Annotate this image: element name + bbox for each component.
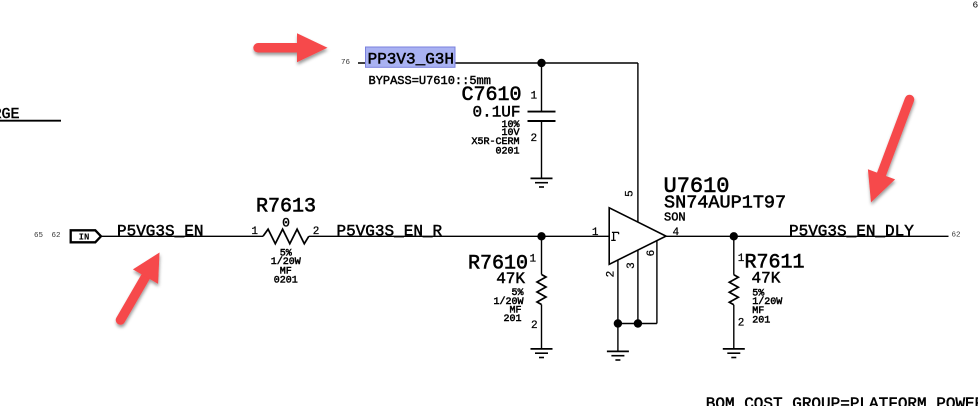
resistor R7613 bbox=[263, 229, 309, 244]
ground below R7610 bbox=[531, 349, 553, 358]
svg-text:1: 1 bbox=[531, 91, 538, 103]
svg-text:201: 201 bbox=[503, 314, 521, 325]
wire P5VG3S_EN_R bbox=[309, 235, 609, 237]
wire R7610 to net bbox=[541, 236, 543, 274]
svg-text:62: 62 bbox=[952, 232, 961, 240]
label R7610 bbox=[468, 252, 528, 275]
svg-text:201: 201 bbox=[752, 315, 770, 326]
pin 2 label of U7610 bbox=[605, 271, 617, 278]
part number SN74AUP1T97 bbox=[664, 192, 786, 213]
svg-text:2: 2 bbox=[738, 318, 745, 330]
junction at capacitor C7610 bbox=[537, 59, 545, 67]
resistor R7611 bbox=[729, 275, 738, 349]
svg-text:P5VG3S_EN: P5VG3S_EN bbox=[117, 222, 203, 240]
resistor R7610 bbox=[537, 275, 546, 349]
svg-text:IN: IN bbox=[79, 233, 90, 243]
svg-text:47K: 47K bbox=[752, 270, 781, 288]
svg-text:SON: SON bbox=[664, 210, 686, 224]
label U7610 bbox=[664, 174, 730, 199]
svg-text:PP3V3_G3H: PP3V3_G3H bbox=[368, 50, 454, 68]
svg-text:65: 65 bbox=[34, 232, 44, 240]
pin 2 of R7610 bbox=[531, 320, 538, 332]
pin 1 of R7611 bbox=[738, 253, 745, 265]
R7611 properties bbox=[752, 288, 782, 326]
wire pin 3 of U7610 bbox=[637, 250, 639, 324]
svg-text:62: 62 bbox=[52, 232, 61, 240]
annotation arrow at P5VG3S_EN bbox=[121, 253, 160, 321]
op-amp buffer U7610 bbox=[609, 208, 666, 264]
value 47K bbox=[496, 270, 525, 288]
ground below C7610 bbox=[531, 178, 553, 187]
pin 4 of U7610 bbox=[673, 227, 680, 239]
package SON bbox=[664, 210, 686, 224]
svg-text:1: 1 bbox=[530, 254, 537, 266]
svg-text:0: 0 bbox=[282, 216, 290, 231]
C7610 properties bbox=[471, 120, 519, 158]
sheet reference 62 right bbox=[952, 232, 961, 240]
pin 2 of R7611 bbox=[738, 318, 745, 330]
value 0.1UF bbox=[472, 104, 520, 122]
wire to ground from pin 2 bbox=[617, 324, 619, 352]
sheet reference 76 bbox=[341, 59, 351, 67]
svg-text:1: 1 bbox=[592, 227, 599, 239]
sheet reference 65 62 bbox=[34, 232, 61, 240]
pin 3 label of U7610 bbox=[626, 262, 638, 269]
label C7610 bbox=[461, 84, 521, 107]
ground below R7611 bbox=[723, 349, 745, 358]
annotation arrow at PP3V3_G3H bbox=[258, 33, 328, 62]
R7613 properties bbox=[271, 248, 301, 286]
wire pin 2 of U7610 bbox=[617, 260, 619, 324]
value 0 bbox=[282, 216, 290, 231]
wire P5VG3S_EN_DLY bbox=[666, 235, 949, 237]
annotation arrow at P5VG3S_EN_DLY bbox=[868, 100, 910, 203]
wire R7611 to net bbox=[733, 236, 735, 274]
value 47K of R7611 bbox=[752, 270, 781, 288]
svg-text:2: 2 bbox=[531, 133, 538, 145]
svg-text:3: 3 bbox=[626, 262, 638, 269]
node PRECHARGE (off-sheet net, clipped at left edge) bbox=[0, 106, 61, 123]
label R7611 bbox=[745, 252, 805, 275]
wire to buffer pin 5 bbox=[637, 63, 639, 222]
R7610 properties bbox=[493, 288, 523, 325]
svg-text:0.1UF: 0.1UF bbox=[472, 104, 520, 122]
pin 1 of C7610 bbox=[531, 91, 538, 103]
capacitor C7610 bbox=[528, 63, 556, 178]
port IN bbox=[71, 230, 101, 242]
pin 2 of R7613 bbox=[313, 226, 320, 238]
svg-text:1: 1 bbox=[251, 226, 258, 238]
node PP3V3_G3H label (highlighted) bbox=[366, 47, 456, 68]
junction at pin 3 bbox=[634, 319, 642, 327]
junction at R7611 bbox=[730, 232, 738, 240]
junction at pin 2 bbox=[614, 319, 622, 327]
pin 5 of U7610 bbox=[624, 190, 636, 197]
pin 6 label of U7610 bbox=[646, 250, 658, 257]
BYPASS property bbox=[369, 74, 491, 88]
wire joining pins 2 3 6 bbox=[618, 323, 657, 325]
svg-text:2: 2 bbox=[531, 320, 538, 332]
svg-text:0201: 0201 bbox=[274, 276, 298, 287]
node P5VG3S_EN_DLY label bbox=[789, 222, 914, 240]
svg-text:P5VG3S_EN_R: P5VG3S_EN_R bbox=[337, 222, 443, 240]
svg-text:0201: 0201 bbox=[495, 146, 519, 157]
pin 1 of U7610 bbox=[592, 227, 599, 239]
wire pin 6 of U7610 bbox=[656, 241, 658, 324]
svg-text:6: 6 bbox=[646, 250, 658, 257]
svg-text:5: 5 bbox=[624, 190, 636, 197]
ground below U7610 bbox=[607, 351, 629, 360]
BOM note bbox=[706, 395, 978, 406]
node P5VG3S_EN_R label bbox=[337, 222, 443, 240]
sheet reference 6 top right bbox=[973, 0, 978, 10]
wire P5VG3S_EN bbox=[101, 235, 263, 237]
svg-text:BOM COST GROUP=PLATFORM POWER: BOM COST GROUP=PLATFORM POWER bbox=[706, 395, 978, 406]
svg-text:2: 2 bbox=[605, 271, 617, 278]
svg-text:47K: 47K bbox=[496, 270, 525, 288]
pin 2 of C7610 bbox=[531, 133, 538, 145]
wire PP3V3_G3H bbox=[358, 62, 638, 64]
node P5VG3S_EN label bbox=[117, 222, 203, 240]
junction on main wire at R7610 bbox=[537, 232, 545, 240]
label R7613 bbox=[256, 196, 316, 219]
svg-text:6: 6 bbox=[973, 0, 978, 10]
pin 1 of R7613 bbox=[251, 226, 258, 238]
svg-text:P5VG3S_EN_DLY: P5VG3S_EN_DLY bbox=[789, 222, 914, 240]
pin 1 of R7610 bbox=[530, 254, 537, 266]
svg-text:76: 76 bbox=[341, 59, 351, 67]
